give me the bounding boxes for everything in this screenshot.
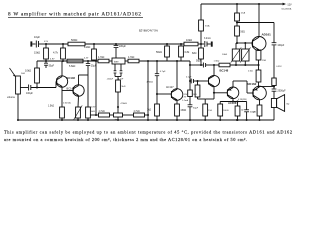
svg-text:0.1µF: 0.1µF xyxy=(186,77,192,79)
wire base Q2 xyxy=(193,80,208,82)
caption xyxy=(4,130,292,144)
resistor R31 tone bottom xyxy=(114,113,123,117)
transistor Q4 AD161 xyxy=(252,37,266,51)
svg-text:1mA: 1mA xyxy=(241,11,246,14)
node E xyxy=(166,43,168,45)
resistor R21 xyxy=(60,107,65,118)
svg-text:4.4V: 4.4V xyxy=(84,58,89,60)
node B xyxy=(45,60,47,62)
svg-text:0.5Ω: 0.5Ω xyxy=(248,71,253,73)
svg-text:BC149: BC149 xyxy=(67,86,75,90)
rail2 top right xyxy=(237,22,274,24)
svg-text:3.2mA: 3.2mA xyxy=(204,37,211,40)
wire pot bottom to rail xyxy=(17,94,19,120)
resistor R28 180 xyxy=(219,102,221,105)
resistor R29 xyxy=(197,81,199,85)
resistor R4 56k xyxy=(166,44,168,46)
transistor Q1a BC148 xyxy=(56,76,67,87)
feedback line xyxy=(147,61,149,120)
volume pot P4 xyxy=(16,76,21,94)
resistor R19 tone right xyxy=(128,59,139,63)
svg-text:1.2mA: 1.2mA xyxy=(182,99,189,102)
NTC wiring xyxy=(235,43,237,49)
svg-text:56kΩ: 56kΩ xyxy=(156,51,162,54)
node D xyxy=(115,43,117,45)
resistor R26 15 xyxy=(256,50,261,60)
wire emitter Q1b down xyxy=(77,95,80,107)
svg-text:are mounted on a common heatsi: are mounted on a common heatsink of 200 … xyxy=(4,137,247,143)
svg-text:AD162: AD162 xyxy=(247,82,257,86)
resistor R12 xyxy=(237,102,239,107)
node H xyxy=(236,21,238,23)
resistor R15 xyxy=(175,104,180,116)
node C2 xyxy=(93,43,95,45)
svg-text:4.7kΩ: 4.7kΩ xyxy=(98,56,105,59)
resistor R2 4.7k xyxy=(62,44,64,48)
resistor R18 xyxy=(116,80,121,92)
svg-text:56Ω: 56Ω xyxy=(240,30,245,33)
wire to Q1a base xyxy=(55,82,57,88)
resistor R25 8.2k xyxy=(93,44,95,49)
svg-text:volume: volume xyxy=(7,96,16,99)
capacitor C8 25uF xyxy=(87,61,89,63)
svg-text:150: 150 xyxy=(208,110,212,112)
svg-text:4.9V: 4.9V xyxy=(50,58,55,60)
svg-text:1Ω: 1Ω xyxy=(241,110,244,112)
svg-text:5kΩ: 5kΩ xyxy=(121,86,125,88)
svg-text:470kΩ: 470kΩ xyxy=(120,103,127,105)
svg-text:10kΩ: 10kΩ xyxy=(186,38,192,42)
wire emitter AD162 xyxy=(259,99,261,105)
tone pot P2 xyxy=(112,58,125,64)
wire rail1 xyxy=(46,43,68,45)
svg-text:4.7k: 4.7k xyxy=(53,51,59,55)
svg-text:15Ω: 15Ω xyxy=(262,60,266,62)
resistor R9 560 xyxy=(235,26,240,36)
node J xyxy=(273,85,275,87)
capacitor C2 xyxy=(44,62,48,64)
wire rail1 mid xyxy=(85,43,167,45)
svg-text:1kΩ: 1kΩ xyxy=(193,94,197,96)
svg-text:180Ω: 180Ω xyxy=(223,110,229,112)
resistor R6 10k xyxy=(184,42,198,46)
svg-text:4.7Ω(2W): 4.7Ω(2W) xyxy=(238,99,247,101)
node F xyxy=(180,43,182,45)
svg-text:220µF: 220µF xyxy=(119,45,126,48)
input jack J1 xyxy=(30,41,32,46)
svg-text:10µF: 10µF xyxy=(34,35,40,39)
resistor R33 xyxy=(189,81,191,90)
svg-text:BC148: BC148 xyxy=(67,76,76,80)
resistor R27 150 xyxy=(205,98,214,100)
resistor R20 xyxy=(156,94,158,104)
wire collector Q1b riser xyxy=(95,61,97,115)
NTC RT2 xyxy=(242,49,249,61)
terminal T2 xyxy=(211,42,213,47)
node OUT xyxy=(257,85,259,87)
node G xyxy=(198,43,204,45)
svg-text:12V: 12V xyxy=(184,94,188,96)
wire base AD161 xyxy=(237,42,253,44)
svg-text:560Ω: 560Ω xyxy=(71,38,77,42)
supply terminal arrow xyxy=(283,3,286,6)
supply rail -12V xyxy=(201,3,283,5)
capacitor C7 50uF xyxy=(202,63,204,68)
node I xyxy=(236,42,238,44)
wire AD161 collector to supply xyxy=(258,4,260,23)
svg-text:1.8V: 1.8V xyxy=(91,107,96,109)
svg-text:1kΩ: 1kΩ xyxy=(21,73,25,75)
svg-text:Itot=480mA: Itot=480mA xyxy=(282,8,292,11)
svg-text:4.7kΩ: 4.7kΩ xyxy=(99,111,105,113)
svg-text:5kΩ: 5kΩ xyxy=(91,111,95,113)
resistor R32 4.7k xyxy=(134,113,145,117)
node C xyxy=(62,43,64,45)
transistor Q1b BC148 xyxy=(73,85,84,96)
svg-text:100µF: 100µF xyxy=(26,92,33,95)
resistor R22 xyxy=(87,75,89,107)
svg-text:BC148: BC148 xyxy=(220,69,229,73)
driver T3 AC127 xyxy=(171,89,183,101)
svg-text:50µF: 50µF xyxy=(49,64,55,67)
NTC RT1 xyxy=(232,49,239,61)
svg-text:10kΩ: 10kΩ xyxy=(222,54,228,56)
svg-text:.047µF: .047µF xyxy=(107,79,114,81)
wire input to node A xyxy=(39,43,47,45)
resistor R10 0.5 xyxy=(256,70,261,82)
capacitor C3 220uF xyxy=(115,44,117,45)
resistor R14 under node G xyxy=(200,44,202,48)
svg-text:tone: tone xyxy=(114,60,119,63)
resistor R23 4.7k xyxy=(99,113,110,117)
wire collector Q1a xyxy=(61,61,63,77)
resistor R3 560 xyxy=(68,42,85,46)
svg-text:1.5kΩ: 1.5kΩ xyxy=(48,106,54,108)
svg-text:4.7µF: 4.7µF xyxy=(160,71,166,73)
preset P3 xyxy=(76,107,81,118)
bootstrap line xyxy=(273,23,275,43)
svg-text:100µF: 100µF xyxy=(277,44,284,47)
svg-text:BZY88/C4V7 5%: BZY88/C4V7 5% xyxy=(139,30,159,33)
svg-text:5Ω: 5Ω xyxy=(286,103,289,105)
resistor R17 tone left xyxy=(98,59,109,63)
svg-text:2500µF: 2500µF xyxy=(277,90,286,93)
svg-text:4.7kΩ: 4.7kΩ xyxy=(128,56,135,59)
resistor R13 1k xyxy=(219,63,230,67)
svg-text:4.5V: 4.5V xyxy=(44,41,49,43)
capacitor C4 100uF xyxy=(204,41,206,47)
resistor R16 xyxy=(67,59,83,63)
svg-text:15kΩ: 15kΩ xyxy=(34,51,40,55)
resistor R30 xyxy=(272,78,276,86)
svg-text:1.5kΩ: 1.5kΩ xyxy=(214,61,220,63)
svg-text:AC127: AC127 xyxy=(166,86,174,89)
svg-text:470kΩ: 470kΩ xyxy=(147,82,154,84)
wire rail1 right xyxy=(167,43,184,45)
capacitor C6 2500uF xyxy=(272,88,277,90)
resistor R1 15k xyxy=(45,44,47,48)
svg-text:This amplifier can safely be e: This amplifier can safely be employed up… xyxy=(4,130,292,136)
resistor R7 xyxy=(199,20,204,31)
svg-text:4.7kΩ: 4.7kΩ xyxy=(134,111,140,113)
svg-text:50µF: 50µF xyxy=(193,108,199,110)
capacitor C11 xyxy=(156,61,158,74)
wire base AD162 xyxy=(247,92,253,94)
ground rail xyxy=(18,119,274,121)
svg-text:8.2kΩ: 8.2kΩ xyxy=(84,46,91,49)
node A xyxy=(45,43,47,45)
svg-text:100µF: 100µF xyxy=(250,112,256,114)
title underline xyxy=(8,16,143,18)
wire emitter Q1a down xyxy=(61,91,63,108)
svg-text:1kΩ: 1kΩ xyxy=(147,110,151,112)
capacitor C5 100uF xyxy=(272,42,277,44)
svg-text:0.35V: 0.35V xyxy=(276,66,282,68)
capacitor C14 50uF xyxy=(189,97,191,105)
wire to R23 xyxy=(90,114,98,116)
svg-text:10kΩ: 10kΩ xyxy=(25,68,31,72)
wire emitter T3 xyxy=(176,100,178,104)
svg-text:82Ω: 82Ω xyxy=(192,52,197,55)
capacitor C1 10uF xyxy=(35,41,37,48)
resistor R5 4.7k xyxy=(180,44,182,46)
wiper wire xyxy=(20,87,28,89)
resistor R24 10k xyxy=(37,60,46,62)
wire collector AD161 up xyxy=(258,23,260,38)
wire collector Q1b xyxy=(78,75,80,86)
svg-text:5.6kΩ: 5.6kΩ xyxy=(69,65,76,68)
signal row y61 xyxy=(37,60,98,62)
wire collector T3 xyxy=(176,61,178,89)
svg-text:3mA: 3mA xyxy=(205,24,210,27)
svg-text:150Ω: 150Ω xyxy=(180,109,186,112)
wire emitter Q2 xyxy=(213,86,215,99)
wire Q1a emitter to Q1b base xyxy=(61,86,63,90)
tone network join xyxy=(115,76,121,78)
capacitor C12 100uF xyxy=(28,85,30,91)
transistor Q2 BC148b xyxy=(208,75,219,86)
svg-text:8 W amplifier with matched pai: 8 W amplifier with matched pair AD161/AD… xyxy=(8,11,141,18)
title xyxy=(8,11,141,18)
capacitor C9 xyxy=(114,64,116,71)
svg-text:6.8k: 6.8k xyxy=(185,51,190,54)
capacitor C10 xyxy=(120,64,122,71)
supply stub R8 xyxy=(236,4,238,13)
capacitor C15 xyxy=(246,102,248,110)
speaker LS xyxy=(271,99,276,108)
resistor R11 xyxy=(257,105,262,116)
bias wire y65 xyxy=(190,64,203,66)
svg-text:-12V: -12V xyxy=(287,3,292,6)
capacitor C13 xyxy=(190,79,192,84)
wire collector AC128 xyxy=(232,81,234,88)
wire to T3 base xyxy=(157,93,171,95)
transistor Q3 AC128 xyxy=(227,87,239,99)
wire emitter AD161 down xyxy=(258,49,261,51)
wire emitter AC128 xyxy=(232,98,234,102)
transistor Q5 AD162 xyxy=(253,86,267,100)
svg-text:AD161: AD161 xyxy=(262,33,272,37)
svg-text:0.52mA: 0.52mA xyxy=(63,101,71,104)
wire collector Q2 xyxy=(213,65,215,76)
